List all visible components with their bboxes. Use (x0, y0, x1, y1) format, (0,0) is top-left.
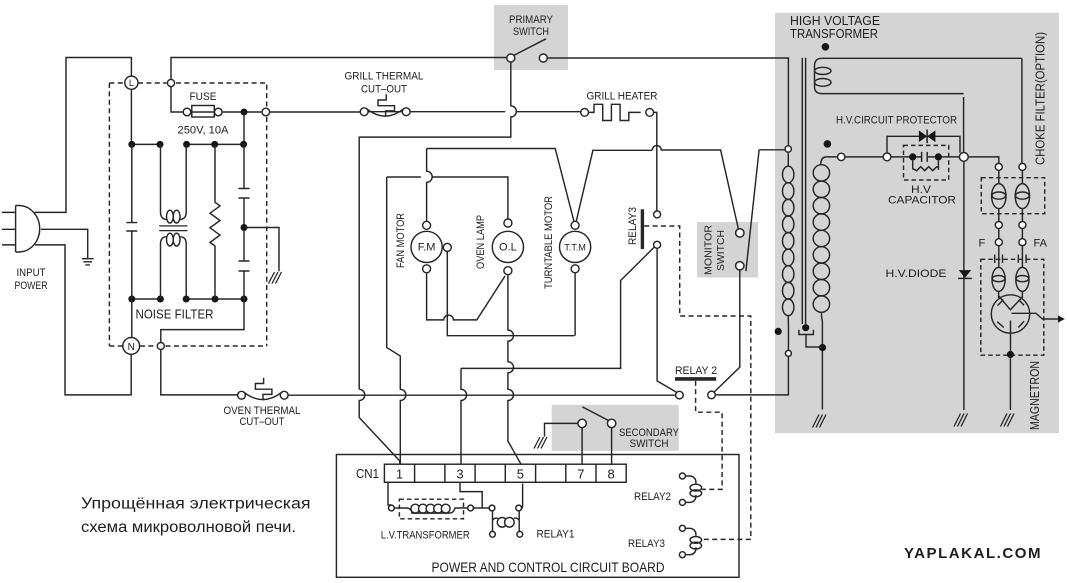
wire (367, 109, 403, 116)
filament chokes (992, 267, 1005, 291)
svg-text:5: 5 (517, 467, 524, 482)
relay2 right wire to HV primary bottom (715, 356, 788, 395)
wire (582, 407, 608, 421)
terminal circle (543.3,58) (539, 54, 547, 62)
filament winding top (815, 58, 1022, 93)
svg-text:FA: FA (1034, 238, 1048, 250)
coil loop (813, 280, 829, 296)
coil loop (167, 210, 174, 223)
wire (821, 157, 838, 165)
terminal circle (422.9,508.6) (419, 504, 428, 513)
fuse line continues right of hop to grill heater (359, 111, 361, 113)
terminal L (125, 76, 138, 89)
terminal circle (406.2,111.7) (402, 108, 410, 116)
wire (922, 152, 928, 162)
terminal circle (682.4,502.4) (679, 499, 685, 505)
coil loop (690, 537, 702, 544)
coil loop (783, 216, 794, 233)
svg-text:O.L: O.L (499, 242, 517, 254)
terminal circle (1022.4,242.2) (1019, 239, 1026, 246)
terminal circle (998.8,166.9) (995, 163, 1002, 170)
svg-text:L: L (129, 78, 134, 88)
wire (759, 149, 785, 151)
junction dot (244,299) (241, 296, 248, 303)
coil loop (813, 165, 829, 181)
wire (244, 228, 279, 272)
wire node down to fuse (171, 87, 183, 112)
svg-text:FAN MOTOR: FAN MOTOR (395, 213, 407, 268)
oven lamp bottom straight down through hops to CN1 pin5 (508, 275, 521, 465)
junction dot (912.7,156.9) (909, 153, 916, 160)
terminal circle (575.1,268.8) (571, 265, 579, 273)
chassis ground under secondary (813, 415, 827, 428)
svg-text:1: 1 (396, 467, 403, 482)
wire (1010, 321, 1012, 351)
secondary switch wires down to CN1 7 and 8 (582, 428, 612, 465)
terminal circle (518.7,508) (516, 505, 522, 511)
coil loop (783, 299, 794, 316)
wire (493, 518, 499, 520)
noise filter top row (132, 143, 244, 145)
oven lamp (504, 219, 512, 227)
svg-text:YAPLAKAL.COM: YAPLAKAL.COM (904, 545, 1042, 562)
primary switch highlight (494, 5, 568, 70)
relay3 blade to cell3 (461, 247, 654, 368)
terminal circle (502.1,522.3) (497, 518, 507, 528)
svg-text:POWER AND CONTROL CIRCUIT: POWER AND CONTROL CIRCUIT BOARD (432, 559, 665, 575)
wire (891, 156, 960, 158)
fuse (183, 108, 191, 116)
wire (787, 152, 789, 166)
svg-text:CUT–OUT: CUT–OUT (361, 84, 407, 96)
svg-text:GRILL THERMAL: GRILL THERMAL (345, 71, 424, 83)
terminal circle (519.8,534.3) (517, 531, 523, 537)
heater one-turn winding bracket (802, 324, 809, 331)
relay2 coil (679, 473, 685, 479)
junction dot (1010.4,354.5) (1007, 351, 1014, 358)
terminal circle (470.6,508) (468, 505, 474, 511)
wire (394, 508, 467, 513)
oven lamp feed line y176.7 (387, 177, 508, 219)
junction dot (131.8,299) (128, 296, 135, 303)
fuse input node circle (167, 79, 174, 86)
terminal circle (507.9,246.9) (492, 231, 523, 262)
feedthrough capacitors (999, 246, 1023, 268)
relay3 lower wire to relay2 (657, 248, 677, 392)
coil loop (813, 247, 829, 263)
svg-text:RELAY2: RELAY2 (634, 491, 671, 503)
oven thermal cut-out (238, 391, 246, 399)
wire (963, 161, 965, 410)
coil loop (783, 199, 794, 216)
svg-text:POWER: POWER (15, 280, 48, 292)
mid junction dot to chassis ground (241, 224, 248, 231)
wire (1058, 315, 1065, 322)
terminal circle (1022.4,166.9) (1019, 163, 1026, 170)
svg-text:CN1: CN1 (356, 466, 379, 481)
coil loop (813, 230, 829, 246)
fan motor bottom wire to y320 (427, 273, 505, 320)
wire (997, 300, 1024, 328)
terminal circle (415.3,508.6) (411, 504, 420, 513)
coil loop (813, 263, 829, 279)
terminal circle (711.5,394.9) (708, 391, 716, 399)
wire (958, 277, 972, 279)
noise filter dashed box (109, 83, 266, 346)
turntable bottom down to y336 (574, 273, 576, 336)
wire plug top prong to top bus (35, 58, 132, 213)
earth ground symbol (82, 259, 94, 265)
svg-text:L.V.TRANSFORMER: L.V.TRANSFORMER (381, 530, 470, 542)
wire (243, 112, 245, 144)
wire (255, 378, 272, 400)
terminal circle (160.8,346) (157, 343, 164, 350)
junction dot (778.2,331.4) (775, 328, 782, 335)
wire (82, 259, 94, 265)
svg-text:T.T.M: T.T.M (564, 243, 586, 253)
filter exit node circle on dashed edge (262, 108, 270, 116)
svg-text:FUSE: FUSE (190, 91, 217, 103)
svg-text:TURNTABLE MOTOR: TURNTABLE MOTOR (543, 196, 555, 289)
wire (461, 368, 467, 464)
wire (415, 464, 596, 482)
secondary switch (578, 419, 586, 427)
chassis ground noise filter (269, 272, 282, 284)
coil loop (783, 166, 794, 183)
junction dot (131.8,144.4) (128, 141, 135, 148)
monitor switch (736, 229, 744, 237)
wire (652, 146, 738, 230)
power and control circuit board (336, 455, 739, 578)
turntable motor (571, 221, 579, 229)
wire filter to grill thermal cutout (270, 111, 361, 113)
wire LVT to relay1 and CN1 pin3 (474, 507, 490, 509)
wire (959, 270, 971, 278)
wire L down to filter row (130, 89, 132, 144)
coil loop (783, 282, 794, 299)
svg-text:H.V.DIODE: H.V.DIODE (886, 268, 947, 280)
svg-text:250V, 10A: 250V, 10A (178, 125, 230, 137)
noise filter transformer (161, 144, 187, 219)
wire (514, 518, 520, 520)
svg-text:схема микроволновой печи.: схема микроволновой печи. (81, 519, 296, 536)
wire (799, 330, 814, 335)
terminal circle (649.7,112.4) (646, 109, 654, 117)
wire (378, 94, 395, 116)
terminal circle (788.4,353.4) (785, 350, 791, 356)
bottom row to N and exit (131, 299, 133, 338)
wire (126, 223, 137, 231)
wire (222, 111, 266, 113)
grill heater down wire to relay3 (654, 112, 657, 211)
wire (514, 39, 546, 56)
wire (887, 136, 960, 153)
wire (545, 423, 578, 436)
wire (926, 130, 928, 144)
fan motor right terminal down to y336 (447, 251, 574, 335)
coil loop (783, 233, 794, 250)
junction dot (938.4,156.9) (935, 153, 942, 160)
junction dot (243.6,144.4) (240, 141, 247, 148)
wire (927, 131, 935, 143)
wire (368, 111, 580, 113)
coil loop (783, 249, 794, 266)
HV cap line (845, 156, 883, 158)
wire (245, 393, 282, 400)
dashed box HV capacitor (904, 145, 949, 180)
terminal circle (841.2,156.9) (838, 153, 845, 160)
svg-text:F.M: F.M (418, 242, 436, 254)
capacitor C1 left column (131, 144, 133, 299)
fan motor feed (427, 149, 433, 222)
wire (675, 377, 716, 381)
wire (1001, 414, 1015, 427)
wire (685, 476, 696, 502)
dashed control links (644, 226, 751, 539)
svg-text:3: 3 (456, 467, 463, 482)
terminal circle (509.4,522.3) (505, 518, 515, 528)
svg-text:CAPACITOR: CAPACITOR (888, 195, 956, 207)
terminal circle (679.4,395.1) (676, 391, 684, 399)
terminal circle (887,156.9) (883, 153, 891, 161)
wire (191, 111, 215, 113)
wire oven thermal to relay2 (288, 394, 676, 396)
terminal circle (445.7,508.6) (441, 504, 450, 513)
wire (161, 350, 238, 395)
coil loop (813, 214, 829, 230)
wire (534, 437, 547, 449)
coil loop (813, 296, 829, 312)
svg-text:SWITCH: SWITCH (715, 230, 727, 271)
svg-text:PRIMARY: PRIMARY (509, 14, 554, 26)
terminal circle (507.9,270.7) (504, 267, 512, 275)
svg-text:NOISE FILTER: NOISE FILTER (136, 307, 214, 322)
choke filter inductor loop L-FA (1015, 184, 1029, 209)
horizontal feeder bus y149 with TTM V and monitor diagonals (427, 149, 653, 222)
terminal circle (426.6,268.8) (423, 265, 431, 273)
terminal circle (438.1,508.6) (434, 504, 443, 513)
coil loop (690, 484, 702, 491)
filament winding eye loops (815, 67, 831, 74)
svg-text:MAGNETRON: MAGNETRON (1027, 361, 1042, 430)
bleeder resistor (913, 161, 939, 171)
resistor noise filter (210, 144, 220, 299)
wire magnetron filament entries (999, 291, 1023, 298)
svg-text:TRANSFORMER: TRANSFORMER (790, 26, 878, 41)
wire (2, 212, 16, 245)
wire (787, 316, 789, 351)
chassis ground HV diode (954, 414, 968, 427)
junction dot (160.4,299) (157, 296, 164, 303)
svg-text:CHOKE FILTER(OPTION): CHOKE FILTER(OPTION) (1033, 32, 1048, 165)
terminal circle (575.1,246.9) (560, 231, 591, 262)
noise filter bottom row (132, 298, 244, 300)
secondary winding (824, 140, 832, 148)
magnetron (991, 295, 1029, 333)
wire (493, 511, 520, 532)
terminal circle (218.3,112) (215, 108, 223, 116)
terminal circle (284.2,395.2) (280, 391, 288, 399)
wire (16, 206, 40, 253)
wire (1012, 313, 1059, 319)
wire (589, 104, 641, 120)
wire node up to top bus (171, 58, 507, 80)
terminal circle (739.8,265.8) (736, 262, 744, 270)
choke filter inductor loop L-F (992, 184, 1006, 209)
wire (968, 157, 999, 163)
svg-text:N: N (128, 342, 135, 353)
terminal circle (998.8,225) (995, 222, 1002, 229)
coil loop (813, 198, 829, 214)
junction dot (215,299) (212, 296, 219, 303)
primary switch down wire with hop over fuse line, turn left (359, 62, 516, 389)
svg-text:Упрощённая электрическая: Упрощённая электрическая (81, 496, 311, 513)
capacitor C2 right column (243, 144, 245, 299)
wire (995, 255, 1026, 264)
relay1 (489, 505, 495, 511)
relay3 contact (654, 211, 661, 218)
monitor switch highlight (697, 222, 758, 278)
grill heater (581, 109, 589, 117)
junction dot (214.7,144.4) (211, 141, 218, 148)
primary switch (507, 54, 515, 62)
svg-text:INPUT: INPUT (17, 267, 46, 279)
wire (644, 226, 751, 539)
terminal circle (391.4,508) (389, 505, 395, 511)
top bus primary switch to HV corner (547, 58, 788, 146)
svg-text:RELAY1: RELAY1 (537, 529, 575, 541)
svg-text:RELAY3: RELAY3 (628, 538, 665, 550)
HV primary top node (785, 146, 791, 152)
coil loop (783, 183, 794, 200)
svg-text:RELAY3: RELAY3 (627, 207, 639, 245)
wire (821, 312, 822, 409)
L.V. transformer (388, 482, 391, 505)
svg-text:MONITOR: MONITOR (703, 225, 715, 275)
grill thermal cut-out (360, 108, 368, 116)
wire (919, 131, 927, 143)
svg-text:H.V.CIRCUIT PROTECTOR: H.V.CIRCUIT PROTECTOR (836, 115, 957, 127)
svg-text:CUT–OUT: CUT–OUT (240, 416, 285, 428)
coil loop (690, 490, 702, 497)
terminal circle (657.1,244.8) (654, 241, 661, 248)
wire (161, 237, 187, 299)
junction dot (160,144.4) (157, 141, 164, 148)
wire (806, 335, 822, 348)
transformer core (802, 58, 805, 324)
monitor bottom wire down to relay2 blade (714, 269, 740, 392)
svg-text:SWITCH: SWITCH (513, 26, 549, 38)
wire (239, 189, 250, 272)
coil loop (173, 210, 180, 223)
terminal circle (426.6,246.9) (411, 231, 442, 262)
svg-text:8: 8 (607, 467, 614, 482)
coil loop (783, 266, 794, 283)
wire plug bottom prong down and to N (35, 245, 131, 395)
junction dot fuse out (241, 109, 248, 116)
svg-text:OVEN LAMP: OVEN LAMP (475, 215, 487, 269)
terminal N (123, 338, 140, 355)
junction dot (186.2,299) (183, 296, 190, 303)
primary winding (783, 152, 794, 350)
hop on A line over bottom wire (359, 389, 400, 464)
line y176.7 corner down to CN1 pin1 (B line) (387, 177, 406, 464)
fan motor (423, 221, 431, 229)
terminal circle (998.8,242.2) (995, 239, 1002, 246)
terminal circle (682.4,554.7) (679, 552, 685, 558)
coil loop (690, 542, 702, 549)
wire (1009, 358, 1011, 410)
terminal circle (492.5,534.3) (490, 531, 496, 537)
HV node to choke (959, 153, 968, 162)
terminal circle (430.5,508.6) (426, 504, 435, 513)
high voltage section background (775, 13, 1059, 434)
wire (159, 226, 187, 231)
svg-text:7: 7 (577, 467, 584, 482)
wire (460, 482, 482, 508)
relay3 coil (679, 525, 685, 531)
junction dot (822.5,347.6) (819, 344, 826, 351)
wire (685, 528, 696, 554)
svg-text:GRILL HEATER: GRILL HEATER (587, 91, 658, 103)
wire (999, 229, 1023, 239)
wire (963, 97, 965, 153)
magnetron dashed box (981, 259, 1044, 355)
svg-text:RELAY 2: RELAY 2 (675, 365, 717, 377)
terminal circle (611.6,423.4) (607, 419, 615, 427)
junction dot (186.6,144.4) (183, 141, 190, 148)
wire plug middle prong to earth (41, 229, 88, 258)
wire (696, 381, 723, 490)
svg-text:SWITCH: SWITCH (630, 438, 669, 450)
coil loop (173, 233, 180, 246)
svg-text:F: F (979, 238, 986, 250)
coil loop (167, 233, 174, 246)
terminal circle (447.3,247.4) (443, 243, 451, 251)
coil loop (813, 181, 829, 197)
wire (109, 83, 266, 346)
wire (1021, 58, 1023, 163)
wire (746, 150, 759, 271)
terminal circle (1022.4,225) (1019, 222, 1026, 229)
wire (641, 209, 644, 249)
secondary switch highlight (552, 405, 679, 451)
polarity dot top (822, 43, 830, 51)
wire (161, 299, 244, 343)
relay1 top right wire up to CN1 pin5 (522, 484, 523, 508)
wire (999, 296, 1023, 309)
wire (999, 170, 1023, 221)
input power plug (2, 206, 40, 253)
